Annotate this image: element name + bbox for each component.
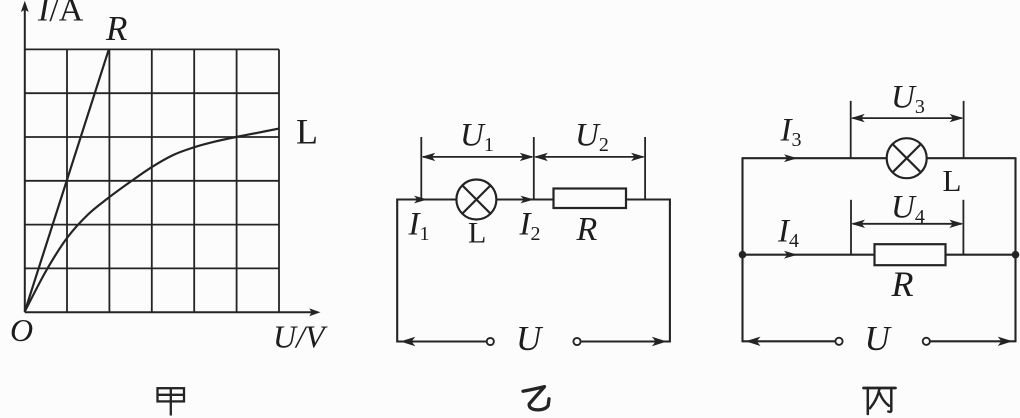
lamp L1 [456,180,496,220]
dimension arrow U3 [851,114,964,122]
tick left U4 [850,200,852,255]
curve L (lamp characteristic) [25,129,279,312]
bottom wire right with arrow [580,337,670,346]
wire left side [396,199,398,343]
wire top left [397,198,456,200]
svg-text:R: R [891,264,914,304]
resistor R2 [875,244,946,265]
svg-text:U: U [516,319,544,358]
line R (resistor characteristic) [25,49,109,311]
svg-text:L: L [468,217,486,250]
resistor R1 [554,189,627,209]
bottom wire right with arrow [930,337,1016,346]
middle wire right [946,254,1016,256]
y axis I [21,1,29,313]
terminal circle right [923,338,930,345]
lamp L2 [887,138,927,178]
tick right U2 [644,137,646,200]
middle wire left [743,254,875,256]
tick left U3 [850,101,852,158]
current arrow I4 [784,251,798,259]
svg-text:L: L [296,112,318,152]
svg-text:U/V: U/V [273,319,328,355]
caption 丙 [864,388,896,414]
tick right U4 [962,200,964,255]
grid [25,49,279,312]
terminal circle left [835,338,842,345]
x axis U [25,308,321,316]
caption 甲 [158,388,185,415]
tick left U1 [420,137,422,200]
wire right side [1014,157,1016,342]
svg-text:R: R [576,211,598,248]
dimension arrow U1 [421,153,534,161]
terminal circle right [573,338,580,345]
svg-text:L: L [943,163,962,198]
bottom wire left with arrow [397,337,487,346]
dimension arrow U4 [851,220,963,228]
bottom wire left with arrow [743,337,836,346]
junction dot right [1012,251,1020,259]
tick right U3 [963,101,965,158]
terminal circle left [487,338,494,345]
svg-text:O: O [10,312,33,348]
svg-text:R: R [105,9,127,48]
wire resistor to corner [626,198,671,200]
wire right side [669,199,671,343]
current arrow I1 [414,196,428,204]
current arrow I3 [784,154,798,162]
junction dot left [739,251,747,259]
dimension arrow U2 [534,153,645,161]
tick mid [533,137,535,200]
svg-text:I/A: I/A [37,0,84,29]
top wire left [743,157,887,159]
wire left side [741,157,743,342]
caption 乙 [523,387,549,410]
svg-text:U: U [865,319,893,358]
current arrow I2 [521,196,535,204]
top wire right [927,157,1016,159]
wire lamp to resistor [496,198,553,200]
